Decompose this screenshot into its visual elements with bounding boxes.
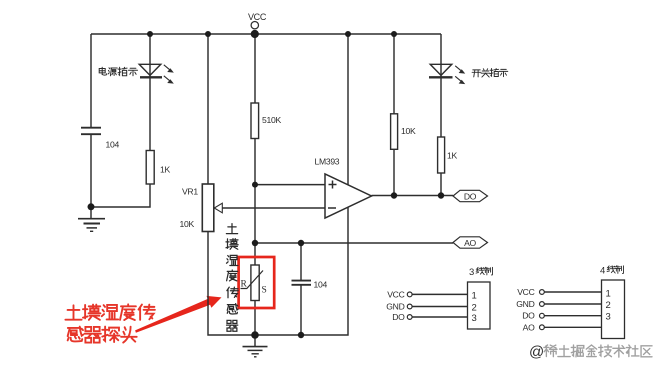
svg-text:DO: DO (392, 312, 405, 322)
svg-text:AO: AO (523, 322, 535, 332)
svg-text:4: 4 (600, 266, 605, 277)
svg-text:104: 104 (106, 140, 120, 150)
svg-text:R: R (241, 280, 248, 290)
svg-text:1: 1 (472, 291, 477, 302)
svg-text:510K: 510K (262, 115, 281, 125)
svg-text:2: 2 (606, 300, 611, 311)
svg-text:1: 1 (606, 289, 611, 300)
svg-text:S: S (262, 286, 267, 296)
svg-text:AO: AO (464, 238, 476, 248)
svg-text:3: 3 (606, 312, 611, 323)
svg-text:10K: 10K (401, 126, 416, 136)
svg-text:DO: DO (464, 191, 477, 201)
svg-text:DO: DO (522, 311, 535, 321)
svg-text:2: 2 (472, 303, 477, 314)
svg-text:10K: 10K (180, 219, 195, 229)
svg-text:1K: 1K (447, 151, 457, 161)
svg-text:3: 3 (472, 313, 477, 324)
svg-text:1K: 1K (160, 165, 170, 175)
svg-text:VCC: VCC (517, 287, 534, 297)
svg-text:VR1: VR1 (182, 187, 198, 197)
svg-text:3: 3 (469, 267, 474, 278)
svg-text:VCC: VCC (248, 12, 267, 22)
svg-text:@: @ (529, 344, 544, 361)
svg-text:GND: GND (386, 302, 404, 312)
svg-text:VCC: VCC (387, 289, 404, 299)
svg-text:LM393: LM393 (315, 157, 340, 167)
svg-text:GND: GND (516, 299, 534, 309)
svg-text:104: 104 (314, 280, 328, 290)
